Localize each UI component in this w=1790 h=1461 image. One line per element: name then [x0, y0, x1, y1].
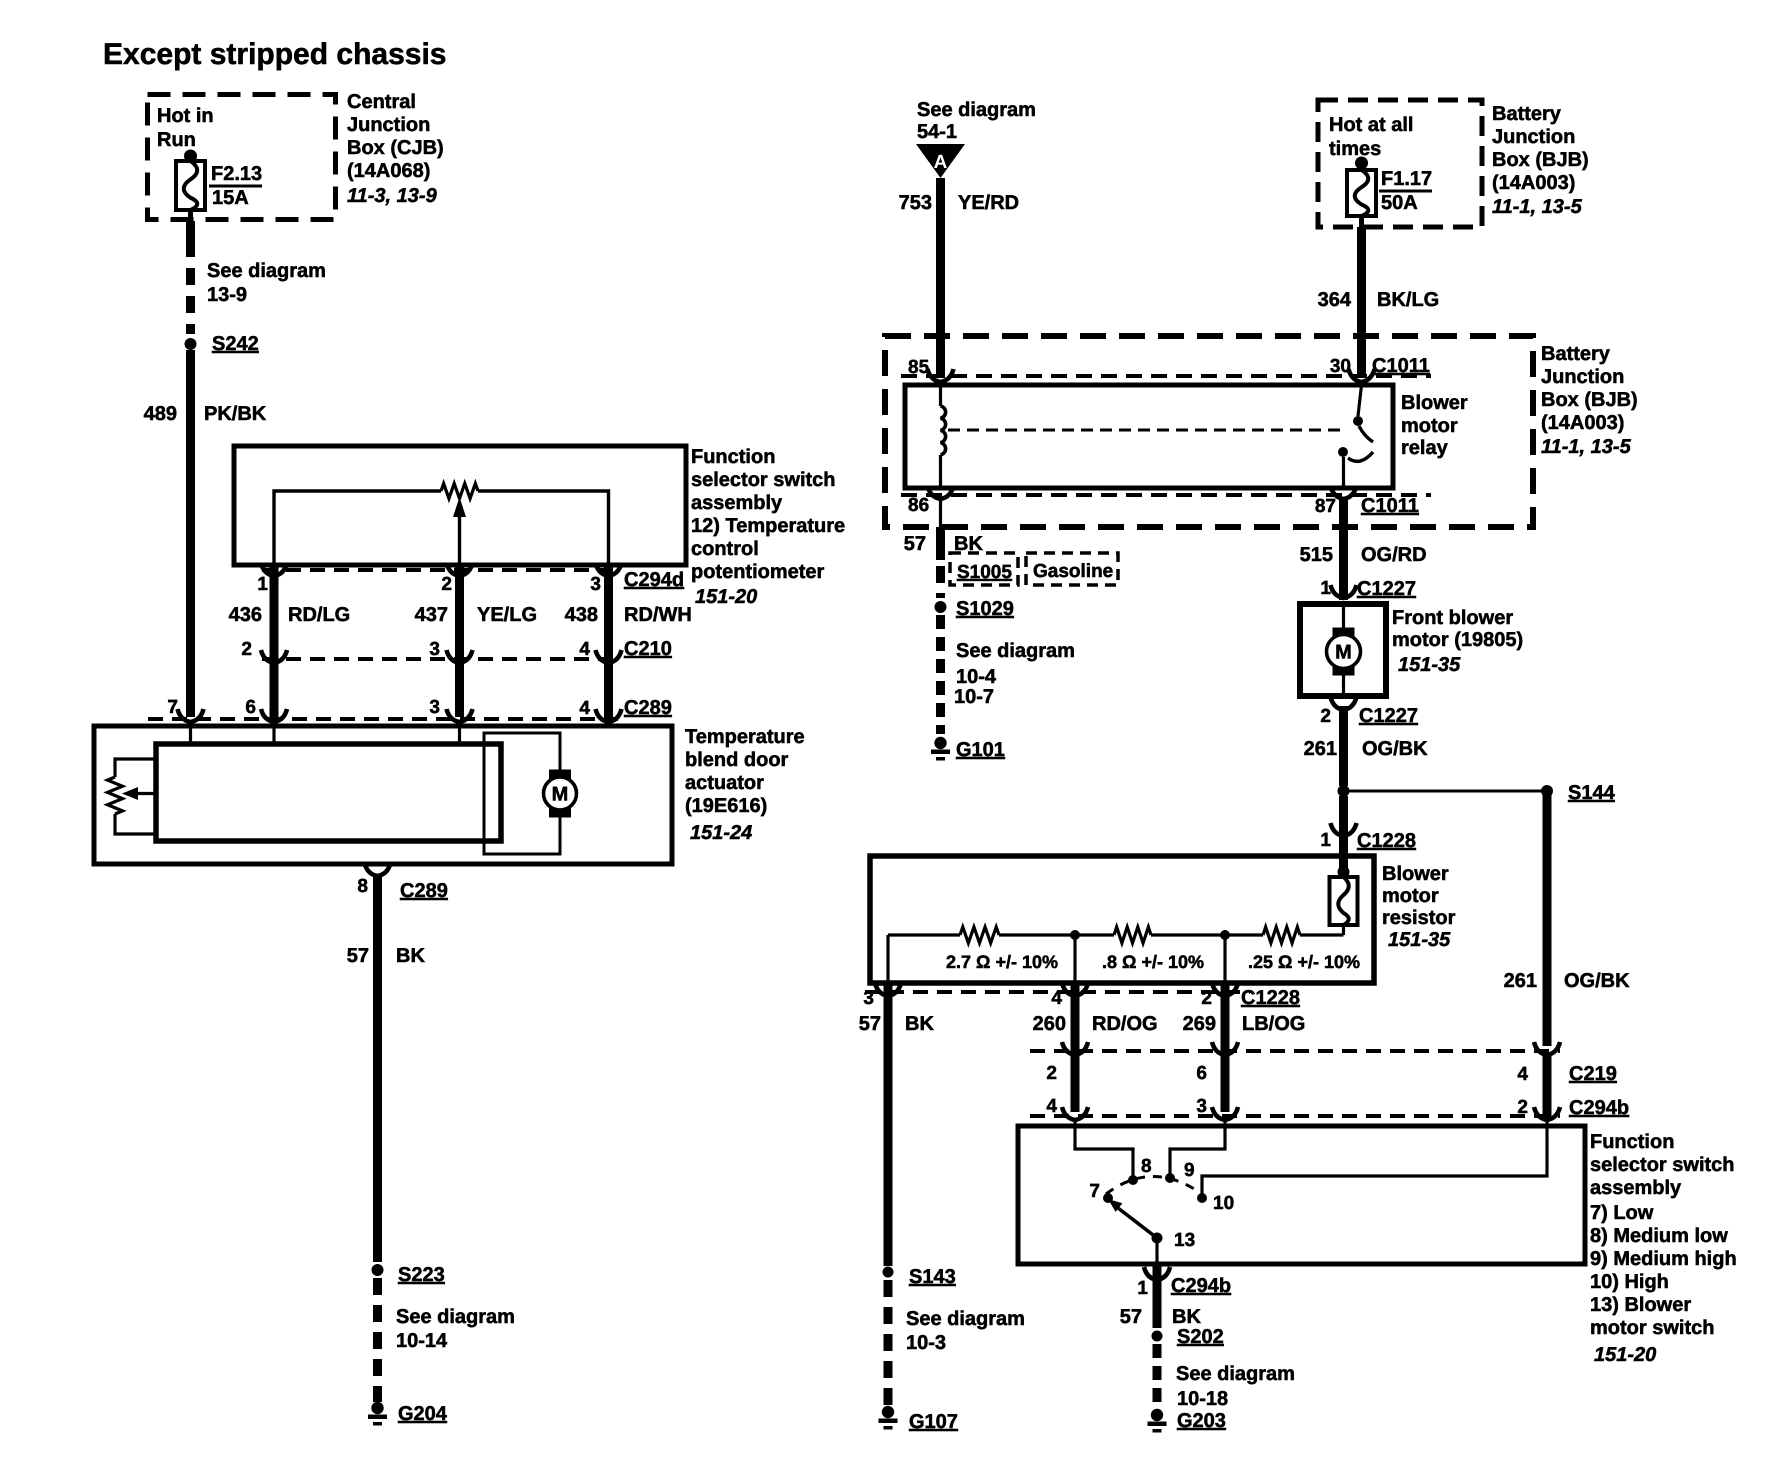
- svg-text:motor: motor: [1401, 415, 1458, 437]
- svg-text:151-35: 151-35: [1398, 654, 1461, 676]
- wire label 261 OG/BK: [1304, 738, 1428, 760]
- svg-text:10: 10: [1213, 1193, 1234, 1214]
- front blower motor box: [1300, 604, 1386, 696]
- connector C1011 dashed line (bottom): [901, 493, 1431, 497]
- wire label 57 BK: [904, 533, 984, 555]
- C210 pin labels 2 3 4: [241, 639, 590, 660]
- connector label C294b: [1569, 1097, 1629, 1119]
- svg-text:F2.13: F2.13: [211, 163, 262, 185]
- svg-text:S143: S143: [909, 1266, 956, 1288]
- svg-text:489: 489: [144, 403, 177, 425]
- svg-text:151-20: 151-20: [1594, 1344, 1656, 1366]
- svg-text:10-4: 10-4: [956, 666, 997, 688]
- svg-text:S1005: S1005: [957, 562, 1012, 583]
- wire 438 RD/WH: [596, 563, 622, 717]
- title: Except stripped chassis: [103, 38, 446, 71]
- connector label C289 (pin 8): [400, 880, 448, 902]
- svg-text:Junction: Junction: [347, 114, 430, 136]
- svg-text:7) Low: 7) Low: [1590, 1202, 1654, 1224]
- switch label Function selector switch assembly 7) Low 8) Medium low 9) Medium high 10) High 13) Blower motor switch 151-20: [1590, 1131, 1737, 1366]
- svg-text:438: 438: [565, 604, 598, 626]
- svg-text:10) High: 10) High: [1590, 1271, 1669, 1293]
- svg-text:See diagram: See diagram: [207, 260, 326, 282]
- svg-text:9) Medium high: 9) Medium high: [1590, 1248, 1737, 1270]
- svg-text:1: 1: [257, 574, 268, 595]
- svg-text:G203: G203: [1177, 1410, 1226, 1432]
- svg-text:3: 3: [429, 697, 440, 718]
- actuator feedback potentiometer (vertical resistor): [108, 759, 157, 834]
- C210 pin arrows: [261, 650, 622, 663]
- fuse F2.13 15A: [176, 150, 205, 225]
- svg-text:30: 30: [1330, 356, 1351, 377]
- svg-text:LB/OG: LB/OG: [1242, 1013, 1305, 1035]
- svg-text:515: 515: [1300, 544, 1333, 566]
- svg-text:M: M: [552, 784, 569, 806]
- wire 364 BK/LG: [1357, 227, 1366, 378]
- svg-text:motor (19805): motor (19805): [1392, 629, 1523, 651]
- splice junction to S144: [1338, 785, 1554, 797]
- fuse label F1.17 / 50A: [1379, 168, 1432, 214]
- svg-text:F1.17: F1.17: [1381, 168, 1432, 190]
- svg-text:3: 3: [429, 639, 440, 660]
- svg-text:54-1: 54-1: [917, 121, 957, 143]
- svg-text:Hot in: Hot in: [157, 105, 214, 127]
- svg-text:10-3: 10-3: [906, 1332, 946, 1354]
- svg-text:.25 Ω +/- 10%: .25 Ω +/- 10%: [1248, 952, 1360, 972]
- svg-text:Gasoline: Gasoline: [1033, 561, 1113, 582]
- svg-text:2: 2: [1046, 1063, 1057, 1084]
- svg-text:Battery: Battery: [1541, 343, 1611, 365]
- svg-text:57: 57: [1120, 1306, 1142, 1328]
- C294b pin labels 4 3 2: [1046, 1096, 1528, 1118]
- temperature blend door actuator outer box: [94, 726, 672, 864]
- wire 489 PK/BK from CJB fuse down (dashed off-page section): [186, 221, 195, 334]
- svg-text:C1228: C1228: [1357, 830, 1416, 852]
- wire 261 OG/BK: [1339, 706, 1348, 786]
- wire 57 BK to S202: [1153, 1266, 1162, 1328]
- C289 pin labels 7 6 3 4: [167, 697, 590, 719]
- svg-text:2: 2: [1201, 988, 1212, 1009]
- svg-text:436: 436: [229, 604, 262, 626]
- svg-text:BK/LG: BK/LG: [1377, 289, 1439, 311]
- svg-text:10-7: 10-7: [954, 686, 994, 708]
- svg-text:selector switch: selector switch: [1590, 1154, 1735, 1176]
- svg-text:S144: S144: [1568, 782, 1616, 804]
- svg-text:57: 57: [904, 533, 926, 555]
- svg-text:relay: relay: [1401, 437, 1449, 459]
- Gasoline dashed box: [1026, 553, 1118, 585]
- svg-text:RD/LG: RD/LG: [288, 604, 350, 626]
- svg-text:11-1, 13-5: 11-1, 13-5: [1492, 196, 1583, 218]
- connector label C210: [624, 638, 672, 660]
- actuator motor M: [544, 770, 577, 818]
- svg-text:blend door: blend door: [685, 749, 789, 771]
- wire 436 RD/LG: [261, 563, 287, 717]
- svg-text:2: 2: [241, 639, 252, 660]
- svg-text:Central: Central: [347, 91, 416, 113]
- wire label 515 OG/RD: [1300, 544, 1427, 566]
- C219 pin labels 2 6 4: [1046, 1063, 1528, 1085]
- label See diagram 10-4 10-7: [954, 640, 1075, 708]
- svg-text:C294b: C294b: [1569, 1097, 1629, 1119]
- svg-text:YE/LG: YE/LG: [477, 604, 537, 626]
- svg-text:2.7 Ω +/- 10%: 2.7 Ω +/- 10%: [946, 952, 1058, 972]
- svg-text:BK: BK: [396, 945, 425, 967]
- wire contact 13 to pin 1: [1155, 1243, 1158, 1264]
- svg-text:261: 261: [1304, 738, 1337, 760]
- svg-text:C289: C289: [624, 697, 672, 719]
- svg-text:BK: BK: [905, 1013, 934, 1035]
- svg-text:S1029: S1029: [956, 598, 1014, 620]
- splice S223: [372, 1264, 445, 1286]
- svg-text:S223: S223: [398, 1264, 445, 1286]
- svg-text:15A: 15A: [212, 187, 249, 209]
- BJB label Battery Junction Box (BJB) (14A003) 11-1, 13-5: [1541, 343, 1638, 458]
- wire label 57 BK: [1120, 1306, 1202, 1328]
- svg-text:motor switch: motor switch: [1590, 1317, 1714, 1339]
- svg-text:C289: C289: [400, 880, 448, 902]
- front blower motor internal wires: [1342, 604, 1345, 696]
- svg-text:364: 364: [1318, 289, 1352, 311]
- wire dashed to G107: [884, 1280, 893, 1406]
- svg-text:assembly: assembly: [1590, 1177, 1682, 1199]
- Central Junction Box (CJB) dashed enclosure: [148, 95, 336, 220]
- label Central Junction Box (CJB) (14A068) 11-3, 13-9: [347, 91, 444, 207]
- relay linkage dashed line: [948, 429, 1342, 432]
- svg-text:9: 9: [1184, 1160, 1195, 1181]
- svg-text:8: 8: [1141, 1156, 1152, 1177]
- svg-text:11-1, 13-5: 11-1, 13-5: [1541, 436, 1632, 458]
- svg-text:10-14: 10-14: [396, 1330, 448, 1352]
- svg-text:See diagram: See diagram: [956, 640, 1075, 662]
- svg-text:269: 269: [1183, 1013, 1216, 1035]
- svg-text:7: 7: [1089, 1181, 1100, 1202]
- connector C289 dashed line: [148, 717, 618, 721]
- potentiometer track (inner outline with resistor zigzag): [274, 484, 609, 566]
- svg-text:G101: G101: [956, 739, 1005, 761]
- svg-text:1: 1: [1320, 578, 1331, 599]
- splice S1005 dashed box: [950, 553, 1018, 585]
- label Hot at all times: [1329, 114, 1413, 160]
- actuator label Temperature blend door actuator (19E616) 151-24: [685, 726, 805, 844]
- actuator inner element box: [156, 744, 501, 841]
- switch contact 9: [1165, 1160, 1195, 1183]
- svg-text:S242: S242: [212, 333, 259, 355]
- svg-text:Temperature: Temperature: [685, 726, 805, 748]
- svg-text:C1011: C1011: [1372, 355, 1430, 377]
- svg-text:6: 6: [245, 697, 256, 718]
- resistor internal drop wires: [888, 935, 1225, 983]
- svg-text:RD/OG: RD/OG: [1092, 1013, 1158, 1035]
- label See diagram 10-3: [906, 1308, 1025, 1354]
- svg-text:12) Temperature: 12) Temperature: [691, 515, 845, 537]
- connector label C294d 151-20: [624, 569, 684, 591]
- svg-text:3: 3: [1196, 1096, 1207, 1117]
- actuator motor loop wire: [484, 733, 560, 854]
- switch rotary dashed arc: [1106, 1176, 1199, 1194]
- svg-text:OG/BK: OG/BK: [1564, 970, 1630, 992]
- wire dash to S1029: [936, 566, 945, 598]
- svg-text:actuator: actuator: [685, 772, 764, 794]
- svg-text:Junction: Junction: [1492, 126, 1575, 148]
- wire from pin 2 to contact 10: [1202, 1118, 1547, 1194]
- label See diagram 10-14: [396, 1306, 515, 1352]
- resistor values 2.7 / .8 / .25 ohm: [946, 952, 1360, 972]
- wire 260 RD/OG: [1071, 983, 1080, 1112]
- wire 489 PK/BK solid down to C289 pin 7: [186, 350, 195, 717]
- svg-text:RD/WH: RD/WH: [624, 604, 692, 626]
- fuse F1.17 50A: [1347, 157, 1376, 228]
- svg-text:13) Blower: 13) Blower: [1590, 1294, 1691, 1316]
- svg-text:Function: Function: [1590, 1131, 1674, 1153]
- wire 57 BK (resistor pin 3): [884, 983, 893, 1266]
- svg-text:C210: C210: [624, 638, 672, 660]
- svg-text:Battery: Battery: [1492, 103, 1562, 125]
- svg-text:Except stripped chassis: Except stripped chassis: [103, 38, 446, 71]
- wire label 57 BK: [347, 945, 426, 967]
- svg-text:260: 260: [1033, 1013, 1066, 1035]
- relay pin 86: [908, 486, 954, 516]
- connector label C289: [624, 697, 672, 719]
- connector label C1228: [1241, 987, 1300, 1009]
- wire 57 BK from actuator to S223: [373, 874, 382, 1262]
- svg-text:4: 4: [579, 639, 590, 660]
- wire 437 YE/LG: [447, 563, 473, 717]
- relay pin 30 / C1011: [1330, 355, 1430, 382]
- wire dashed to G203: [1153, 1344, 1162, 1408]
- svg-text:Run: Run: [157, 129, 196, 151]
- connector C294b pin 1: [1137, 1267, 1231, 1299]
- relay switch contacts and armature: [1338, 385, 1373, 488]
- svg-text:See diagram: See diagram: [906, 1308, 1025, 1330]
- switch arm with arrow (pointing at contact 7): [1108, 1199, 1157, 1238]
- wire label 753 YE/RD: [899, 192, 1020, 214]
- wire labels 436 RD/LG 437 YE/LG 438 RD/WH: [229, 604, 692, 626]
- actuator internal stub wires from pins 7,6,3: [191, 726, 460, 744]
- C219 pin arrows: [1062, 1042, 1560, 1055]
- svg-text:G107: G107: [909, 1411, 958, 1433]
- splice S202: [1152, 1326, 1224, 1348]
- svg-text:753: 753: [899, 192, 932, 214]
- svg-text:resistor: resistor: [1382, 907, 1456, 929]
- switch contact 7: [1089, 1181, 1113, 1203]
- label See diagram 10-18: [1176, 1363, 1295, 1410]
- svg-text:85: 85: [908, 357, 930, 378]
- svg-text:assembly: assembly: [691, 492, 783, 514]
- svg-text:4: 4: [1046, 1096, 1057, 1117]
- svg-text:See diagram: See diagram: [1176, 1363, 1295, 1385]
- svg-text:(14A003): (14A003): [1492, 172, 1575, 194]
- relay pin 87 / C1011: [1315, 486, 1419, 517]
- svg-text:OG/BK: OG/BK: [1362, 738, 1428, 760]
- wire dashed to G204: [373, 1278, 382, 1402]
- off-page connector triangle A: [916, 144, 965, 178]
- wire label 364 BK/LG: [1318, 289, 1440, 311]
- svg-text:C294b: C294b: [1171, 1275, 1231, 1297]
- ground G101: [931, 737, 1005, 761]
- wire 269 LB/OG: [1221, 983, 1230, 1112]
- svg-text:86: 86: [908, 495, 929, 516]
- relay coil: [941, 385, 946, 488]
- svg-text:.8 Ω +/- 10%: .8 Ω +/- 10%: [1102, 952, 1204, 972]
- svg-text:C294d: C294d: [624, 569, 684, 591]
- connector C289 pin 8 arrow: [357, 863, 390, 897]
- svg-text:3: 3: [590, 574, 601, 595]
- svg-text:(14A003): (14A003): [1541, 412, 1624, 434]
- switch common contact 13: [1152, 1230, 1196, 1251]
- connector C1227 pin 1: [1320, 578, 1416, 600]
- splice S143: [883, 1266, 956, 1288]
- function selector switch assembly box (temperature control potentiometer): [234, 446, 686, 565]
- svg-text:YE/RD: YE/RD: [958, 192, 1019, 214]
- svg-text:Box (BJB): Box (BJB): [1541, 389, 1638, 411]
- svg-text:4: 4: [579, 698, 590, 719]
- wire 57 BK below relay: [939, 499, 942, 560]
- svg-text:151-20: 151-20: [695, 586, 757, 608]
- wire to C1228 pin 1: [1339, 796, 1348, 868]
- relay pin 85: [908, 357, 954, 382]
- Battery Junction Box dashed enclosure: [885, 336, 1533, 527]
- svg-text:2: 2: [1320, 706, 1331, 727]
- wire from pin 4 to contact 8: [1075, 1118, 1133, 1176]
- connector C219 dashed line: [1030, 1049, 1560, 1053]
- svg-text:437: 437: [415, 604, 448, 626]
- function selector switch assembly box (blower motor switch): [1018, 1126, 1585, 1264]
- svg-text:151-24: 151-24: [690, 822, 752, 844]
- svg-text:PK/BK: PK/BK: [204, 403, 267, 425]
- svg-text:11-3, 13-9: 11-3, 13-9: [347, 185, 438, 207]
- label Hot in Run: [157, 105, 214, 151]
- connector C210 dashed line: [262, 657, 618, 661]
- relay label Blower motor relay: [1401, 392, 1468, 459]
- resistor input element: [1330, 866, 1358, 935]
- connector C1228 dashed line (bottom): [865, 990, 1250, 994]
- svg-text:8: 8: [357, 876, 368, 897]
- label Function selector switch assembly / 12) Temperature control potentiometer / 151-20: [691, 446, 845, 608]
- wire 515 OG/RD: [1339, 499, 1348, 600]
- svg-text:Function: Function: [691, 446, 775, 468]
- svg-text:motor: motor: [1382, 885, 1439, 907]
- svg-text:2: 2: [1517, 1097, 1528, 1118]
- svg-text:A: A: [934, 152, 948, 173]
- svg-text:8) Medium low: 8) Medium low: [1590, 1225, 1728, 1247]
- connector C1227 pin 2: [1320, 697, 1418, 727]
- wire S144 branch through C219/C294b: [1543, 1055, 1552, 1120]
- wire label 261 OG/BK (branch): [1504, 970, 1630, 992]
- connector label C219: [1569, 1063, 1617, 1085]
- svg-text:C1227: C1227: [1359, 705, 1418, 727]
- C294d pin labels 1 2 3: [257, 574, 601, 595]
- svg-text:13-9: 13-9: [207, 284, 247, 306]
- ground G204: [368, 1402, 448, 1426]
- svg-text:Box (BJB): Box (BJB): [1492, 149, 1589, 171]
- svg-text:261: 261: [1504, 970, 1537, 992]
- svg-text:2: 2: [441, 574, 452, 595]
- ground G107: [879, 1406, 958, 1433]
- C1228 pin arrows: [875, 983, 1238, 996]
- C289 pin arrows: [178, 709, 622, 722]
- switch contact 10: [1197, 1193, 1234, 1214]
- svg-text:(14A068): (14A068): [347, 160, 430, 182]
- svg-text:selector switch: selector switch: [691, 469, 836, 491]
- label Battery Junction Box (BJB) (14A003) 11-1, 13-5: [1492, 103, 1589, 218]
- svg-text:control: control: [691, 538, 759, 560]
- connector C294b dashed line: [1030, 1114, 1560, 1118]
- svg-text:S202: S202: [1177, 1326, 1224, 1348]
- svg-text:See diagram: See diagram: [917, 99, 1036, 121]
- C294b pin arrows: [1062, 1107, 1560, 1120]
- svg-text:G204: G204: [398, 1403, 448, 1425]
- switch contact 8: [1128, 1156, 1152, 1185]
- label See diagram 13-9: [207, 260, 326, 306]
- svg-text:Blower: Blower: [1401, 392, 1468, 414]
- connector C1011 dashed line (top): [901, 374, 1431, 378]
- connector C294d dashed line: [262, 568, 618, 572]
- wire from pin 3 to contact 9: [1170, 1118, 1225, 1174]
- svg-text:Box (CJB): Box (CJB): [347, 137, 444, 159]
- svg-text:10-18: 10-18: [1177, 1388, 1228, 1410]
- svg-text:C1011: C1011: [1361, 495, 1419, 517]
- svg-text:M: M: [1335, 642, 1352, 664]
- C1228 pin labels 3 4 2: [863, 988, 1212, 1009]
- svg-text:1: 1: [1137, 1278, 1148, 1299]
- Hot at all times dashed box: [1318, 100, 1482, 227]
- svg-text:Blower: Blower: [1382, 863, 1449, 885]
- svg-text:Hot at all: Hot at all: [1329, 114, 1413, 136]
- resistor network bus with three resistors: [888, 927, 1344, 943]
- svg-text:potentiometer: potentiometer: [691, 561, 825, 583]
- svg-text:(19E616): (19E616): [685, 795, 767, 817]
- svg-text:C1228: C1228: [1241, 987, 1300, 1009]
- svg-text:13: 13: [1174, 1230, 1195, 1251]
- svg-text:3: 3: [863, 988, 874, 1009]
- wire labels 57 BK 260 RD/OG 269 LB/OG: [859, 1013, 1306, 1035]
- svg-text:BK: BK: [1172, 1306, 1201, 1328]
- svg-text:6: 6: [1196, 1063, 1207, 1084]
- svg-text:151-35: 151-35: [1388, 929, 1451, 951]
- svg-text:50A: 50A: [1381, 192, 1418, 214]
- wire 261 OG/BK branch down from S144: [1543, 794, 1552, 1046]
- connector C1228 pin 1: [1320, 823, 1416, 852]
- svg-text:57: 57: [859, 1013, 881, 1035]
- splice S242: [185, 333, 259, 355]
- svg-text:Junction: Junction: [1541, 366, 1624, 388]
- svg-text:OG/RD: OG/RD: [1361, 544, 1427, 566]
- fuse label F2.13 / 15A: [209, 163, 262, 209]
- label Front blower motor (19805) 151-35: [1392, 607, 1523, 676]
- svg-text:times: times: [1329, 138, 1381, 160]
- svg-text:Front blower: Front blower: [1392, 607, 1513, 629]
- svg-text:57: 57: [347, 945, 369, 967]
- svg-text:7: 7: [167, 697, 178, 718]
- svg-text:4: 4: [1517, 1064, 1528, 1085]
- svg-text:See diagram: See diagram: [396, 1306, 515, 1328]
- wire 753 YE/RD: [936, 178, 945, 378]
- resistor label Blower motor resistor 151-35: [1382, 863, 1456, 951]
- svg-text:C1227: C1227: [1357, 578, 1416, 600]
- potentiometer wiper arrow (pointing left): [122, 787, 156, 800]
- svg-text:1: 1: [1320, 830, 1331, 851]
- splice S1029: [935, 598, 1014, 620]
- label See diagram 54-1: [917, 99, 1036, 143]
- svg-text:C219: C219: [1569, 1063, 1617, 1085]
- wire dashed to G101: [936, 615, 945, 734]
- front blower motor M: [1327, 628, 1361, 676]
- potentiometer wiper arrow: [453, 497, 466, 565]
- svg-text:87: 87: [1315, 496, 1336, 517]
- label S144: [1568, 782, 1616, 804]
- blower motor resistor box: [870, 856, 1374, 983]
